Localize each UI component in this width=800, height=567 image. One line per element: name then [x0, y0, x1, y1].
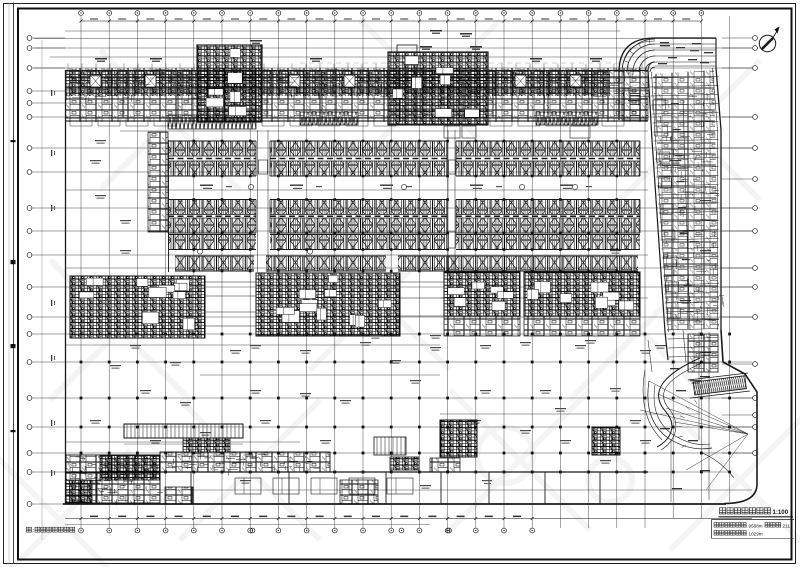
mid residential center cluster [256, 273, 400, 336]
bottom mid storage boxes [235, 478, 261, 494]
horizontal grid lines [34, 31, 752, 504]
bottom right faint labels [482, 480, 492, 481]
bottom wall stubs [96, 472, 98, 504]
ramp tick marks [624, 61, 629, 63]
gray fold line [41, 40, 43, 540]
bottom left note [27, 527, 32, 532]
driveway gap boxes [449, 160, 456, 174]
parking band 3 single row [175, 256, 254, 271]
ramp labels [630, 95, 640, 96]
mid residential right cluster 2 [524, 272, 640, 316]
ramp lane text clutter [660, 42, 669, 43]
stair cells B [374, 437, 406, 455]
hatch ramp guide lines [688, 373, 748, 380]
top band label clutter [95, 58, 107, 60]
top band clutter [67, 69, 650, 105]
top band unit dividers [122, 71, 124, 119]
strip foot rooms block [688, 334, 718, 372]
ramp dim ticks [124, 443, 243, 445]
right strip room boxes [653, 100, 666, 110]
right strip dividers [649, 77, 718, 358]
top right ramp outer [619, 38, 716, 120]
svg-text:: 211: : 211 [780, 524, 790, 529]
vertical grid lines [81, 16, 730, 528]
mid residential right cluster 1 [444, 272, 520, 316]
left inside-margin tick texts [51, 90, 52, 96]
parking band 1 [168, 141, 256, 156]
aisle labels band1 [200, 185, 213, 186]
top axis bubbles [79, 11, 704, 16]
left storage column [148, 132, 168, 232]
parking band 2 (double) [168, 200, 256, 215]
bottom edge y504 [63, 503, 726, 505]
hatched ramp bottom right [693, 376, 746, 395]
north arrow [759, 35, 775, 51]
info line 2 [714, 531, 719, 536]
right strip left edge [648, 70, 668, 360]
aisle column dots [193, 140, 619, 273]
ramp arcs [650, 67, 655, 72]
open field column dots [80, 333, 731, 474]
stair block A [440, 420, 477, 457]
right strip inner clutter [659, 93, 724, 327]
mid residential left cluster [70, 276, 205, 338]
right strip rooms fill [653, 70, 719, 330]
ramp lane lines right [655, 43, 716, 45]
mid band white room patches [142, 312, 158, 324]
parking area left wall [168, 140, 170, 272]
bottom dimension line [65, 518, 752, 520]
info line 1 [714, 523, 719, 528]
radiating lines [640, 381, 748, 490]
bottom axis bubbles [79, 528, 535, 533]
svg-text:: 9588m: : 9588m [746, 524, 763, 529]
curve zone labels [670, 368, 680, 369]
driveway edges vertical [257, 130, 259, 272]
parking band 2b single row [168, 235, 256, 250]
top band core 2 [388, 52, 488, 125]
top band parapet ticks [68, 64, 642, 71]
bottom right big arc [648, 381, 712, 449]
svg-text:1:100: 1:100 [773, 509, 789, 516]
curve zone extra arcs [654, 385, 710, 445]
gray dashed overlay lines [65, 84, 648, 86]
bottom heavy wall y472 [66, 471, 649, 473]
bottom right outer boundary [721, 330, 757, 504]
right strip right edge [716, 68, 721, 330]
ramp inner corner [648, 62, 655, 88]
mid band corridor lines [205, 281, 256, 283]
top band outer walls [66, 70, 649, 72]
sheet margin divider [13, 3, 15, 565]
stair block C [592, 427, 620, 455]
bottom center rooms band [160, 452, 330, 472]
title text [720, 508, 726, 514]
curve zone verticals [708, 332, 710, 500]
bottom right S road [657, 358, 700, 447]
small boxes below band right [444, 126, 460, 138]
right axis bubbles [722, 36, 757, 456]
right strip longitudinal line [683, 100, 690, 330]
rooms left of strip top [622, 90, 648, 120]
top band hatch boxes [168, 115, 256, 129]
bottom left rooms [66, 455, 160, 503]
aisle circles [248, 184, 253, 189]
top dimension line [81, 20, 700, 22]
bottom small boxes [165, 487, 193, 504]
open field labels [95, 195, 106, 196]
top residential band rooms [66, 68, 648, 122]
curve zone dim ticks [682, 445, 686, 448]
ramp right edge [715, 38, 717, 68]
top band elevator boxes [90, 75, 101, 87]
top band balcony stubs [70, 118, 92, 126]
center entrance ramp [124, 424, 243, 438]
left axis bubbles [27, 36, 65, 507]
svg-text:: 1029m: : 1029m [746, 532, 763, 537]
left margin marks [11, 140, 16, 142]
top band core 1 [197, 45, 262, 122]
